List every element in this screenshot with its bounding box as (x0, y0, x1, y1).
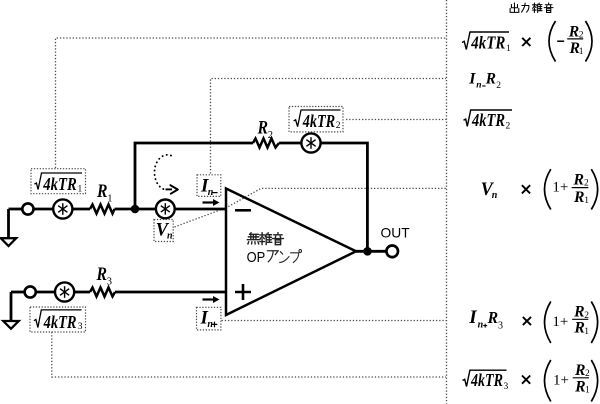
resistor label R1 (96, 181, 112, 204)
svg-text:OUT: OUT (381, 226, 411, 241)
dotted link In- to formula 2 (211, 79, 447, 174)
noise source sqrt4kTR2 (circle with asterisk) (301, 133, 320, 152)
svg-text:2: 2 (506, 121, 511, 131)
header text 出力雑音 (output noise) (510, 3, 553, 13)
svg-text:1: 1 (584, 327, 589, 337)
svg-text:1: 1 (78, 184, 83, 194)
svg-text:1: 1 (584, 196, 589, 206)
svg-text:4kTR: 4kTR (471, 110, 505, 130)
svg-text:4kTR: 4kTR (470, 370, 503, 390)
input terminal (non-inverting side) (25, 286, 36, 297)
svg-text:OP: OP (247, 250, 266, 266)
dotted link In+ to formula 5 (222, 320, 446, 322)
svg-text:1+: 1+ (552, 314, 568, 330)
svg-text:1: 1 (585, 386, 590, 396)
wire: upper ground drop (7, 209, 10, 238)
svg-text:R: R (574, 362, 586, 379)
ground (upper) (1, 238, 16, 246)
junction node (output) (363, 247, 372, 256)
label box sqrt4kTR2 (289, 107, 343, 132)
svg-text:1: 1 (107, 193, 112, 204)
svg-text:4kTR: 4kTR (43, 312, 77, 332)
svg-text:3: 3 (107, 276, 112, 287)
svg-text:4kTR: 4kTR (42, 174, 76, 194)
op-amp label OPアンプ (247, 250, 302, 266)
svg-text:R: R (485, 70, 496, 87)
svg-text:3: 3 (78, 322, 83, 332)
label box Vn (154, 220, 173, 242)
ground (lower) (3, 321, 18, 329)
label box sqrt4kTR1 (31, 169, 86, 195)
input terminal (inverting side) (22, 203, 33, 214)
svg-text:R: R (574, 378, 586, 395)
formula 2: In- R2 (468, 70, 501, 91)
noise source Vn (circle with asterisk) (156, 200, 175, 219)
op-amp plus sign (235, 284, 251, 300)
op-amp U1 (noiseless) (226, 189, 356, 316)
svg-text:R: R (573, 189, 585, 206)
formula 4: Vn x (1+R2/R1) (481, 169, 598, 209)
svg-text:R: R (573, 320, 585, 337)
noise source sqrt4kTR3 (circle with asterisk) (55, 282, 74, 301)
resistor R1 (90, 205, 115, 214)
svg-text:4kTR: 4kTR (470, 32, 505, 52)
svg-text:I: I (468, 70, 476, 87)
formula 1: sqrt(4kTR1) x (-R2/R1) (462, 21, 592, 62)
resistor label R3 (96, 264, 112, 287)
label box In- (197, 175, 221, 198)
svg-text:1+: 1+ (552, 180, 568, 196)
junction node (feedback / R1) (131, 205, 140, 214)
svg-text:R: R (96, 181, 107, 202)
In- current arrow (203, 199, 220, 206)
svg-text:R: R (257, 118, 268, 139)
resistor R3 (90, 288, 115, 297)
dotted link sqrt4kTR3 to formula 6 (52, 332, 446, 377)
op-amp minus sign (235, 209, 251, 212)
svg-text:R: R (96, 264, 107, 285)
svg-text:R: R (487, 308, 498, 327)
svg-text:R: R (573, 304, 585, 321)
label box sqrt4kTR3 (30, 307, 86, 332)
wire: inverting input rail (9, 208, 23, 211)
In+ current arrow (203, 296, 220, 303)
OUT terminal (386, 246, 398, 258)
svg-text:3: 3 (504, 382, 509, 392)
svg-text:2: 2 (336, 121, 341, 131)
svg-text:2: 2 (268, 130, 273, 141)
resistor R2 (253, 139, 279, 148)
svg-text:3: 3 (498, 321, 503, 332)
formula 5: In+ R3 x (1+R2/R1) (468, 302, 597, 344)
noise source sqrt4kTR1 (circle with asterisk) (53, 199, 72, 218)
svg-text:R: R (572, 171, 584, 188)
svg-text:1: 1 (506, 44, 511, 54)
wire: feedback loop (135, 143, 253, 209)
curved dotted current-loop arrow (154, 155, 177, 194)
svg-text:1+: 1+ (553, 373, 569, 389)
resistor label R2 (257, 118, 273, 141)
label box In+ (197, 307, 221, 330)
formula 3: sqrt(4kTR2) (464, 110, 513, 131)
svg-text:4kTR: 4kTR (302, 111, 335, 131)
wire: lower ground drop (10, 292, 13, 321)
svg-text:n: n (167, 231, 173, 242)
dotted link sqrt4kTR2 to formula 3 (346, 119, 446, 121)
formula 6: sqrt(4kTR3) x (1+R2/R1) (463, 360, 598, 402)
op-amp label 無雑音 (noiseless) (247, 233, 283, 245)
svg-text:I: I (468, 307, 477, 328)
dotted link sqrt4kTR1 to formula 1 (56, 38, 447, 168)
svg-text:1: 1 (579, 47, 584, 57)
wire: non-inverting input rail (11, 291, 25, 294)
wire: output (356, 250, 386, 253)
svg-text:n: n (476, 81, 481, 91)
svg-text:2: 2 (496, 81, 501, 91)
dotted separator line (right column divider) (446, 0, 448, 404)
svg-text:n: n (478, 320, 484, 331)
svg-text:n: n (492, 190, 498, 201)
svg-text:R: R (568, 23, 580, 40)
dotted link Vn to formula 4 (175, 188, 447, 227)
svg-text:2: 2 (584, 178, 589, 188)
